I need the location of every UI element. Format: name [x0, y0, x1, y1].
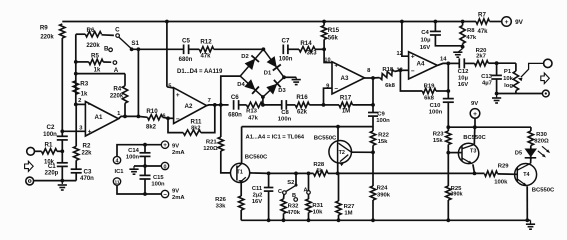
svg-text:R4: R4: [113, 85, 121, 92]
wire R30 to LED: [530, 146, 532, 149]
wire R7 to 9V terminal: [490, 21, 502, 23]
svg-text:100n: 100n: [376, 118, 390, 124]
wire C10 to 9V rail: [447, 102, 449, 127]
node A3 pin9 line: [322, 103, 326, 107]
resistor R17: [339, 102, 353, 107]
wire R18 to pin13: [395, 70, 401, 71]
svg-text:R12: R12: [200, 39, 212, 46]
svg-text:47k: 47k: [248, 115, 259, 121]
node A-column: [307, 172, 311, 176]
node LED cathode: [529, 156, 532, 159]
wire R28 to T2: [328, 172, 338, 174]
switch S2 stub: [295, 173, 297, 184]
resistor R16: [295, 102, 309, 107]
wire R10 to A2 pin6: [138, 115, 147, 118]
node bridge top: [262, 47, 266, 51]
svg-text:D2: D2: [241, 54, 248, 60]
wire T2node to R27: [338, 173, 340, 201]
svg-text:680n: 680n: [228, 113, 242, 119]
resistor R2: [74, 146, 79, 160]
svg-text:47k: 47k: [477, 29, 488, 35]
wire bridge TL edge: [240, 49, 263, 76]
node S2 stub top: [294, 172, 298, 176]
wire T3 emitter: [473, 164, 475, 173]
wire C9 to envelope: [372, 116, 374, 131]
svg-text:16V: 16V: [252, 199, 262, 205]
svg-text:8k2: 8k2: [191, 125, 200, 131]
svg-text:2: 2: [78, 98, 81, 104]
svg-text:R22: R22: [378, 132, 390, 138]
svg-text:15k: 15k: [433, 138, 444, 144]
wire R17 to output column: [353, 104, 374, 106]
wire C2 to R1 node: [61, 140, 63, 151]
svg-text:+: +: [176, 92, 180, 99]
wire emitter line: [269, 172, 314, 174]
wire R29 to T4 base: [498, 173, 518, 175]
svg-text:4: 4: [116, 159, 119, 165]
svg-text:R29: R29: [498, 164, 510, 170]
wire bottom out line: [497, 93, 543, 95]
svg-text:R5: R5: [91, 53, 99, 60]
led D5: [525, 149, 538, 158]
svg-text:1k: 1k: [94, 68, 101, 74]
node battery-rail: [473, 125, 477, 129]
capacitor C7: [282, 45, 284, 55]
wire C13 down: [496, 79, 498, 94]
led light arrows: [538, 151, 545, 157]
ground bridge: [295, 77, 297, 79]
wire S1 column: [137, 49, 139, 116]
wire C8 to R16: [286, 104, 295, 106]
pin circle IC1-4: [113, 156, 120, 163]
node R8-C4-gnd: [461, 45, 465, 49]
svg-text:14: 14: [440, 56, 447, 62]
wire pin3 line: [62, 130, 85, 132]
svg-text:47k: 47k: [466, 35, 477, 41]
wire R2 to C3: [75, 160, 77, 169]
capacitor C8: [281, 100, 283, 110]
svg-text:C12: C12: [458, 69, 470, 75]
wire rail to C4: [434, 22, 436, 32]
svg-text:+: +: [88, 129, 92, 136]
wire bridge-left riser: [221, 76, 240, 105]
resistor R15: [321, 26, 326, 40]
node R20-C13-P1: [495, 61, 499, 65]
wire C14 to C15: [144, 156, 146, 175]
wire R5 to contact A: [103, 61, 111, 63]
svg-text:+: +: [411, 54, 415, 61]
resistor R6: [85, 32, 101, 37]
node R4-output: [123, 115, 127, 119]
svg-text:D3: D3: [278, 88, 286, 94]
wire T3base to R25: [447, 153, 449, 186]
wire C15 bottom: [144, 179, 146, 194]
wire node to R17: [324, 104, 340, 106]
node A2 out bridge: [219, 103, 223, 107]
pot P1 wiper: [518, 78, 523, 81]
svg-text:A: A: [303, 187, 307, 193]
capacitor C5: [183, 45, 185, 55]
wire T2 top lead: [337, 127, 339, 141]
svg-text:C13: C13: [481, 74, 493, 80]
wire C5 to R12: [189, 48, 200, 50]
node R22-T2: [371, 150, 375, 154]
resistor R21: [218, 137, 223, 151]
diode D3: [266, 84, 277, 95]
resistor R7: [476, 19, 490, 24]
svg-text:100n: 100n: [126, 154, 140, 160]
wire T2node to R24: [372, 152, 374, 186]
node A3 output: [371, 76, 375, 80]
svg-text:100n: 100n: [278, 116, 292, 122]
wire R25 to rail: [447, 200, 449, 220]
resistor R24: [370, 186, 375, 200]
svg-text:220p: 220p: [45, 170, 59, 176]
node R19-C10: [446, 89, 450, 93]
svg-text:C2: C2: [47, 124, 55, 131]
svg-text:+: +: [163, 142, 167, 149]
svg-text:−: −: [176, 116, 180, 123]
svg-text:R6: R6: [87, 27, 95, 34]
svg-text:S2: S2: [287, 180, 294, 186]
capacitor C9: [368, 112, 378, 114]
node T3 base: [446, 151, 450, 155]
svg-text:BC560C: BC560C: [245, 155, 268, 161]
wire R21 to T1 base: [221, 151, 231, 173]
wire R19 to pin13 riser: [400, 70, 422, 91]
node rail R24: [371, 218, 375, 222]
svg-text:C10: C10: [430, 103, 442, 109]
svg-text:C: C: [115, 26, 120, 33]
svg-text:R24: R24: [377, 186, 389, 192]
wire gnd stub: [458, 49, 463, 53]
node R17-column: [371, 103, 375, 107]
capacitor C15: [140, 174, 151, 176]
wire A column: [308, 173, 310, 190]
node bridge right: [282, 75, 286, 79]
svg-text:33k: 33k: [216, 204, 227, 210]
node R14-R15: [322, 47, 326, 51]
wire A2out to R21: [220, 105, 222, 137]
node T2 emitter: [336, 172, 340, 176]
capacitor C6: [233, 100, 235, 110]
resistor R8: [460, 26, 465, 44]
wire R26 to rail: [240, 210, 242, 220]
op-amp A3: [332, 62, 365, 94]
svg-text:R30: R30: [536, 132, 548, 138]
resistor R10: [148, 115, 163, 120]
node A1 pin3: [60, 129, 64, 133]
transistor T4: [515, 164, 537, 186]
wire C3 to ground line: [75, 173, 77, 181]
node column-R4wire: [74, 72, 78, 76]
svg-text:D1...D4 = AA119: D1...D4 = AA119: [177, 69, 223, 75]
capacitor C2: [57, 135, 68, 137]
node S1col-output: [137, 115, 141, 119]
resistor R19: [422, 88, 436, 93]
resistor R9: [60, 24, 65, 38]
svg-text:C9: C9: [377, 111, 385, 117]
svg-text:6k8: 6k8: [385, 83, 396, 89]
diode D1: [267, 56, 277, 67]
transistor T2: [329, 141, 352, 164]
node C13-ground: [495, 92, 499, 96]
svg-text:A3: A3: [341, 75, 349, 82]
wire R6 to contact C: [102, 34, 114, 37]
svg-text:3k3: 3k3: [307, 51, 318, 57]
svg-text:R11: R11: [190, 118, 202, 125]
svg-text:−: −: [334, 86, 338, 93]
wire R24 to rail: [372, 200, 374, 220]
node S1 wire: [137, 47, 141, 51]
wire node to C1: [61, 151, 63, 163]
svg-text:15k: 15k: [378, 139, 389, 145]
resistor R20: [475, 61, 489, 66]
wire rail to R30: [530, 127, 532, 131]
svg-text:R7: R7: [478, 12, 486, 19]
svg-text:0: 0: [164, 164, 167, 170]
svg-text:T4: T4: [523, 172, 529, 178]
svg-text:47k: 47k: [200, 54, 211, 60]
svg-text:T2: T2: [339, 150, 345, 156]
wire A2 pin5 column: [166, 22, 168, 87]
svg-text:9V: 9V: [471, 101, 478, 107]
switch S2 contact C: [283, 191, 287, 195]
svg-text:+: +: [473, 111, 477, 118]
input jack tip: [27, 147, 35, 155]
svg-text:S1: S1: [131, 40, 139, 47]
svg-text:R14: R14: [300, 40, 312, 47]
diode D2: [245, 59, 256, 70]
wire R20 to node: [488, 62, 496, 64]
resistor R22: [370, 131, 375, 145]
svg-text:C14: C14: [128, 148, 139, 154]
wire bridge BR edge: [263, 77, 284, 97]
wire R14 to R15 column: [315, 48, 324, 50]
svg-text:22k: 22k: [81, 151, 92, 157]
svg-text:2mA: 2mA: [172, 150, 185, 156]
resistor R25: [446, 186, 451, 200]
svg-text:A2: A2: [185, 103, 193, 110]
svg-text:2k7: 2k7: [476, 54, 487, 60]
wire 0V: [134, 165, 161, 167]
wire pin4 to +term: [117, 145, 161, 157]
node rail-C4: [434, 20, 438, 24]
node 0V: [143, 164, 147, 168]
wire R10 end: [163, 117, 169, 118]
wire R27 to rail: [338, 215, 340, 220]
svg-text:16V: 16V: [458, 82, 469, 88]
capacitor C11: [264, 187, 274, 189]
wire C12 to R20: [464, 62, 474, 64]
svg-text:D1: D1: [264, 71, 272, 77]
transistor T3: [458, 143, 478, 163]
svg-text:−: −: [88, 101, 92, 108]
wire tip to R1: [35, 150, 42, 152]
svg-text:log: log: [504, 83, 513, 89]
wire node to P1: [497, 62, 516, 64]
svg-text:1k: 1k: [316, 168, 322, 174]
svg-text:100n: 100n: [279, 57, 293, 63]
node rail R27: [337, 218, 341, 222]
svg-text:10: 10: [324, 57, 330, 63]
wire pin2 line: [76, 103, 86, 105]
resistor R32: [283, 194, 286, 199]
node bridge bottom: [261, 95, 265, 99]
wire A4 pin12 column: [402, 22, 409, 57]
svg-text:A4: A4: [417, 60, 425, 67]
wire T1 right lead: [250, 172, 269, 175]
diode D4: [244, 79, 255, 90]
svg-text:9V: 9V: [515, 19, 524, 26]
svg-text:11: 11: [114, 180, 119, 186]
wire A2 feedback: [201, 105, 215, 133]
svg-text:R16: R16: [296, 94, 308, 101]
terminal 0V: [161, 162, 168, 169]
svg-text:390k: 390k: [450, 192, 463, 198]
wire pin11 to -term: [117, 185, 161, 194]
output signal arrow: [541, 73, 550, 84]
node rail R32: [282, 218, 286, 222]
node rail-A2pin5: [165, 20, 169, 24]
wire battery to rail: [474, 118, 476, 127]
resistor R28: [314, 171, 329, 176]
svg-text:1k: 1k: [81, 91, 88, 97]
svg-text:C8: C8: [281, 110, 289, 116]
node rail-R15: [322, 20, 326, 24]
svg-text:C4: C4: [421, 30, 429, 36]
wire column to R5: [76, 61, 89, 63]
wire emitter line right: [338, 172, 485, 174]
svg-text:R21: R21: [206, 139, 218, 145]
node ground line: [60, 179, 64, 183]
svg-text:390k: 390k: [377, 193, 391, 199]
wire node to C13: [496, 63, 498, 75]
svg-text:A1: A1: [95, 114, 103, 121]
node A1 pin2: [74, 103, 78, 107]
resistor R26: [239, 196, 244, 210]
svg-text:B: B: [292, 193, 296, 199]
wire R31 to rail: [308, 213, 310, 221]
svg-text:C1: C1: [48, 163, 56, 170]
op-amp A4: [409, 52, 438, 79]
svg-text:220k: 220k: [86, 43, 100, 49]
resistor R31: [308, 194, 310, 199]
node C10-R23-rail: [446, 125, 450, 129]
resistor R29: [485, 171, 498, 176]
terminal +9V supply: [502, 17, 512, 27]
op-amp A2: [174, 88, 207, 124]
svg-text:−: −: [411, 68, 415, 75]
svg-text:R8: R8: [467, 28, 475, 34]
wire T4 emitter: [526, 186, 528, 220]
resistor R30: [528, 131, 533, 146]
wire C6 to R13: [239, 104, 247, 106]
output jack sleeve: [542, 90, 549, 97]
svg-text:R32: R32: [288, 203, 300, 209]
svg-text:P1: P1: [504, 69, 512, 75]
wire S1 to C5: [132, 48, 184, 50]
node rail T4: [525, 218, 529, 222]
node bridge-bottom line: [261, 103, 265, 107]
svg-text:B: B: [104, 46, 109, 53]
svg-text:16V: 16V: [420, 45, 431, 51]
wire T2 right lead: [351, 151, 373, 153]
svg-text:4µ7: 4µ7: [482, 80, 493, 86]
switch S2 arm: [295, 184, 298, 187]
wire R22 to T2 node: [372, 145, 374, 152]
capacitor C12: [458, 58, 460, 68]
capacitor C14: [140, 152, 151, 154]
svg-text:D5: D5: [515, 151, 522, 157]
wire C12 left: [448, 62, 459, 64]
resistor R23: [447, 127, 449, 131]
svg-text:2µ2: 2µ2: [253, 193, 263, 199]
wire C11 to rail: [268, 191, 270, 220]
svg-text:1M: 1M: [342, 109, 350, 115]
wire R19 right: [436, 90, 448, 92]
svg-text:10k: 10k: [503, 76, 514, 82]
node S1 pivot: [130, 47, 134, 51]
ground input: [61, 181, 63, 184]
wire pin2 to R2: [75, 104, 77, 146]
svg-text:R13: R13: [246, 109, 258, 115]
resistor R4: [122, 86, 127, 103]
capacitor C13: [491, 74, 502, 76]
node C11-top: [267, 172, 271, 176]
node column-R5: [74, 60, 78, 64]
wire R4 to A1 output: [124, 103, 126, 116]
wire A3out to R18: [373, 77, 380, 79]
svg-text:BC550C: BC550C: [532, 188, 555, 194]
svg-text:120Ω: 120Ω: [203, 146, 218, 152]
wire rail to R8: [462, 22, 464, 26]
svg-text:C3: C3: [84, 169, 92, 176]
svg-text:10k: 10k: [313, 209, 324, 215]
wire T1 emitter to R26: [240, 182, 242, 196]
wire R9 to A1 pin3 node: [61, 38, 63, 131]
resistor R3: [73, 81, 78, 94]
wire bottom rail: [241, 219, 530, 221]
terminal 9V battery: [470, 109, 480, 119]
wire A3out column upper: [372, 78, 374, 113]
svg-text:R19: R19: [424, 83, 436, 89]
node pin13-R19: [399, 68, 403, 72]
svg-text:100k: 100k: [494, 179, 508, 185]
svg-text:R1: R1: [45, 142, 53, 149]
wire C14 top: [144, 145, 146, 153]
node rail-R8: [461, 20, 465, 24]
svg-text:100n: 100n: [429, 109, 443, 115]
wire to C11: [268, 173, 270, 187]
svg-text:56k: 56k: [328, 35, 339, 41]
svg-text:470n: 470n: [80, 176, 94, 182]
svg-text:7: 7: [208, 98, 211, 104]
capacitor C3: [71, 168, 82, 170]
svg-text:2mA: 2mA: [172, 195, 185, 201]
potentiometer P1: [515, 63, 517, 71]
svg-text:820Ω: 820Ω: [534, 139, 549, 145]
svg-text:9V: 9V: [172, 143, 179, 149]
wire R15 to pin10: [324, 39, 332, 62]
svg-text:A1...A4 = IC1 = TL064: A1...A4 = IC1 = TL064: [246, 134, 305, 140]
node T2 collector-envelope: [336, 125, 340, 129]
svg-text:220k: 220k: [110, 93, 124, 99]
wire R11 to pin6: [168, 118, 183, 132]
svg-text:10µ: 10µ: [458, 76, 469, 82]
svg-text:6k8: 6k8: [424, 95, 435, 101]
node rail R31: [307, 218, 311, 222]
